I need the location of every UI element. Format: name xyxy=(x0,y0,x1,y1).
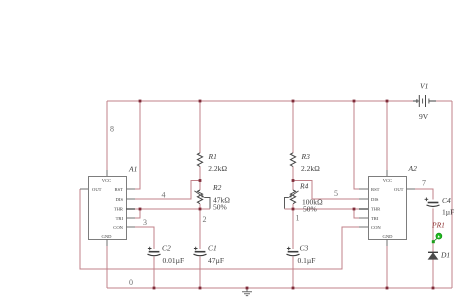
svg-text:2.2kΩ: 2.2kΩ xyxy=(208,164,227,173)
wire: A1 OUT routed to A2 CON xyxy=(80,189,359,269)
R4 wiper arrow xyxy=(291,191,299,196)
svg-text:C2: C2 xyxy=(162,244,171,253)
svg-text:0.01µF: 0.01µF xyxy=(163,256,185,265)
timer A1 box xyxy=(89,177,127,240)
svg-text:A2: A2 xyxy=(408,164,418,173)
wire: A1 TRI riser to THR line xyxy=(135,209,140,218)
wire: C3 bottom lead to ground rail xyxy=(292,257,294,289)
svg-text:D1: D1 xyxy=(440,251,450,260)
wire: A2 TRI riser to THR line xyxy=(354,209,359,218)
wire: link node R1/R2 to A1 DIS pin (net 4) xyxy=(135,181,200,200)
wire: R4 bottom lead down to C3 xyxy=(292,204,294,249)
resistor R3 xyxy=(290,153,295,167)
svg-text:OUT: OUT xyxy=(92,187,102,192)
svg-text:PR1: PR1 xyxy=(431,221,445,230)
svg-text:0: 0 xyxy=(129,278,133,287)
R4 wiper bracket to bottom terminal xyxy=(285,198,289,209)
wire: A2 OUT to C4 (net 7) xyxy=(415,189,433,200)
ground symbol xyxy=(242,288,252,296)
svg-text:VCC: VCC xyxy=(102,178,111,183)
wire: bottom ground rail xyxy=(107,287,452,289)
A1 THR pin stub xyxy=(126,208,135,210)
svg-text:CON: CON xyxy=(371,225,381,230)
svg-text:1µF: 1µF xyxy=(442,208,454,217)
svg-text:50%: 50% xyxy=(213,203,227,212)
capacitor C2 xyxy=(148,247,161,256)
svg-text:R3: R3 xyxy=(301,152,311,161)
svg-text:OUT: OUT xyxy=(394,187,404,192)
wire: A1 VCC riser from top rail xyxy=(106,101,108,170)
wire: R4 top lead xyxy=(292,181,294,191)
capacitor C1 xyxy=(194,247,207,256)
svg-text:DIS: DIS xyxy=(371,197,379,202)
wire: link node R3/R4 to A2 DIS pin (net 5) xyxy=(293,181,359,200)
wire: C2 bottom lead to ground rail xyxy=(153,257,155,289)
A2 THR pin stub xyxy=(359,208,368,210)
svg-text:0.1µF: 0.1µF xyxy=(298,256,316,265)
timer A2 box xyxy=(369,177,407,240)
svg-text:C3: C3 xyxy=(300,244,309,253)
svg-text:2.2kΩ: 2.2kΩ xyxy=(301,164,320,173)
svg-text:2: 2 xyxy=(203,215,207,224)
svg-text:C4: C4 xyxy=(442,196,451,205)
potentiometer R4 xyxy=(290,190,295,204)
R2 wiper arrow xyxy=(194,191,202,196)
capacitor C3 xyxy=(287,247,300,256)
wire: A1 RST riser to top rail xyxy=(135,101,140,189)
wire: A1 CON to C2 (net 3) xyxy=(135,227,154,249)
svg-text:TRI: TRI xyxy=(371,216,379,221)
wire: C4 bottom to D1 xyxy=(432,209,434,253)
wire: A2 GND lead down to ground rail xyxy=(386,245,388,288)
wire: A2 RST riser to top rail xyxy=(354,101,359,189)
wire: R2 bottom lead down to C1 xyxy=(199,204,201,249)
svg-text:9V: 9V xyxy=(419,112,429,121)
svg-text:5: 5 xyxy=(334,189,338,198)
svg-text:47µF: 47µF xyxy=(208,256,224,265)
svg-text:8: 8 xyxy=(110,125,114,134)
svg-text:C1: C1 xyxy=(208,244,217,253)
resistor R1 xyxy=(197,153,202,167)
wire: battery right lead to right drop xyxy=(436,100,452,102)
svg-text:RST: RST xyxy=(371,187,380,192)
svg-text:THR: THR xyxy=(114,207,124,212)
svg-text:R1: R1 xyxy=(208,152,217,161)
svg-text:3: 3 xyxy=(143,218,147,227)
A1 pin stubs xyxy=(80,170,135,246)
svg-text:R2: R2 xyxy=(212,183,222,192)
wire: R2 top lead xyxy=(199,181,201,191)
svg-text:A1: A1 xyxy=(128,165,137,174)
svg-text:RST: RST xyxy=(115,187,124,192)
probe PR1 xyxy=(432,233,442,243)
diode D1 xyxy=(428,252,438,259)
wire: A2 THR line (net 1) xyxy=(285,208,360,210)
wire: R3 top lead from rail xyxy=(292,101,294,153)
wire: A1 GND lead down to ground rail xyxy=(106,245,108,288)
wire: R1 top lead from rail xyxy=(199,101,201,153)
battery V1 xyxy=(413,95,436,107)
svg-text:CON: CON xyxy=(113,225,123,230)
wire: R1 bottom lead to node xyxy=(199,166,201,180)
svg-text:V1: V1 xyxy=(420,82,428,91)
svg-text:THR: THR xyxy=(371,207,381,212)
A2 pin stubs xyxy=(359,170,415,246)
svg-text:GND: GND xyxy=(102,234,113,239)
wire: A1 THR line (net 2) xyxy=(135,208,210,210)
wire: D1 anode to ground rail xyxy=(432,260,434,289)
potentiometer R2 xyxy=(197,190,202,204)
svg-text:R4: R4 xyxy=(299,182,309,191)
svg-text:50%: 50% xyxy=(303,205,317,214)
svg-text:TRI: TRI xyxy=(116,216,124,221)
wire: top power rail xyxy=(107,100,413,102)
svg-text:DIS: DIS xyxy=(116,197,124,202)
capacitor C4 xyxy=(425,198,440,207)
svg-text:GND: GND xyxy=(383,234,394,239)
R2 wiper bracket to bottom terminal xyxy=(204,198,210,209)
wire: R3 bottom lead to node xyxy=(292,166,294,180)
svg-text:7: 7 xyxy=(422,179,426,188)
wire: C1 bottom lead to ground rail xyxy=(199,257,201,289)
svg-text:VCC: VCC xyxy=(383,178,392,183)
wire: A2 VCC riser from top rail xyxy=(386,101,388,170)
wire: right vertical drop from battery to ground rail xyxy=(451,101,453,288)
svg-text:1: 1 xyxy=(296,214,300,223)
svg-text:4: 4 xyxy=(162,191,166,200)
